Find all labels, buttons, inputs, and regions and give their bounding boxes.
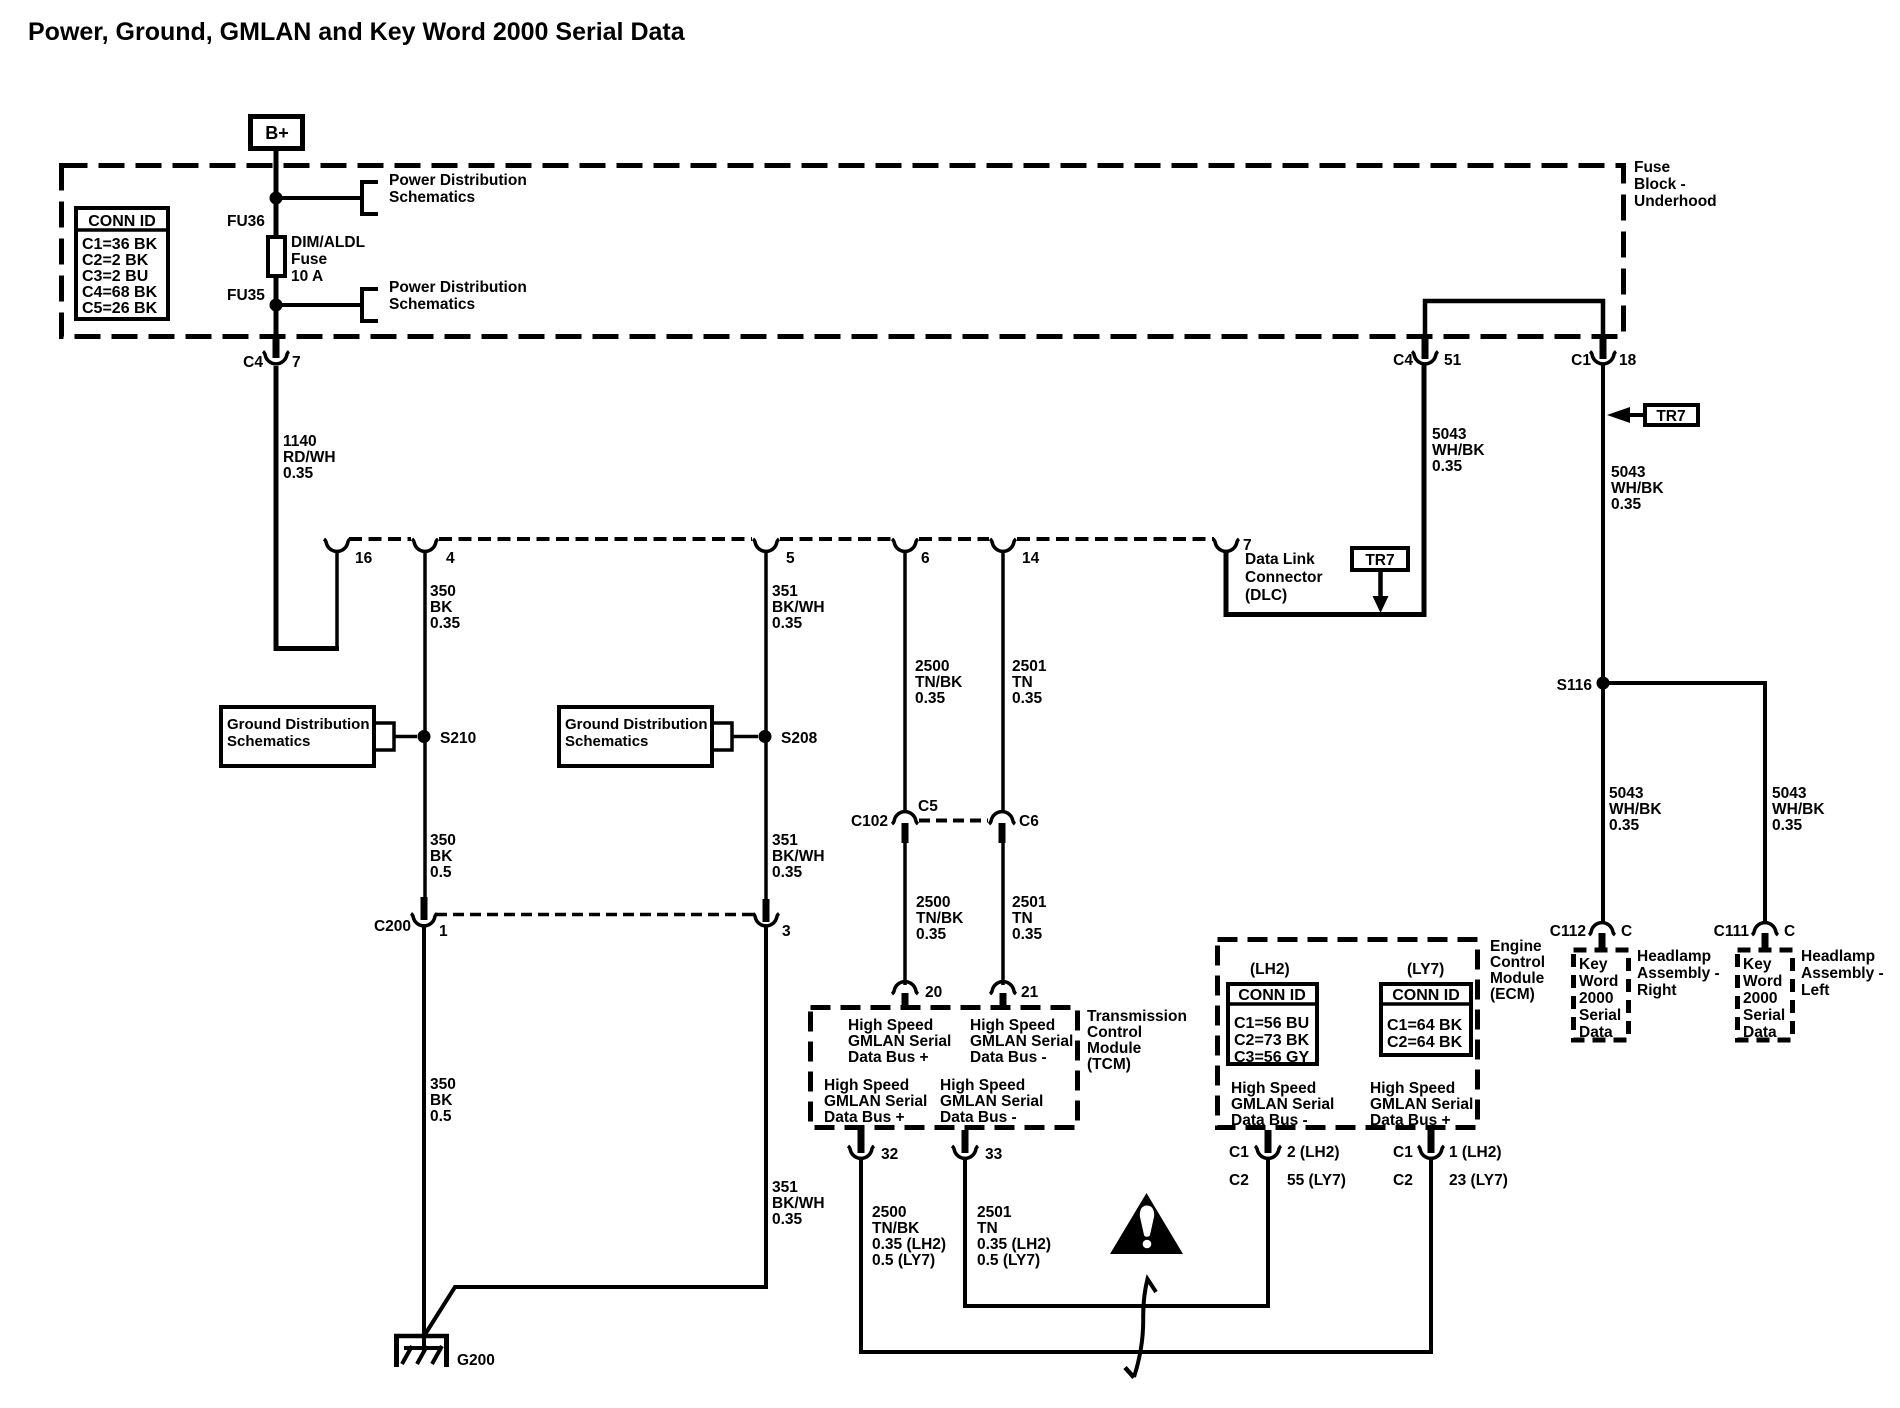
svg-text:Headlamp: Headlamp: [1801, 948, 1875, 965]
svg-text:GMLAN Serial: GMLAN Serial: [848, 1033, 951, 1050]
svg-text:WH/BK: WH/BK: [1772, 801, 1825, 818]
svg-text:1 (LH2): 1 (LH2): [1449, 1144, 1502, 1161]
svg-text:351: 351: [772, 583, 798, 600]
fuse DIM/ALDL 10 A: [268, 234, 365, 285]
svg-text:5043: 5043: [1611, 464, 1646, 481]
svg-text:5: 5: [786, 550, 795, 567]
svg-text:GMLAN Serial: GMLAN Serial: [970, 1033, 1073, 1050]
svg-text:18: 18: [1619, 352, 1637, 369]
svg-text:TR7: TR7: [1365, 552, 1394, 569]
svg-text:0.35: 0.35: [1611, 496, 1642, 513]
connector DLC pin 5: [753, 539, 795, 567]
svg-text:Data: Data: [1579, 1024, 1613, 1041]
svg-text:0.5: 0.5: [430, 864, 452, 881]
wire 2501 TN 0.35 C6 to TCM pin 21: [1003, 843, 1047, 985]
ground distribution schematics tap S208: [559, 707, 758, 766]
svg-text:0.35: 0.35: [1772, 817, 1803, 834]
svg-text:C112: C112: [1550, 923, 1586, 940]
svg-text:Data Link: Data Link: [1245, 551, 1315, 568]
svg-text:Module: Module: [1490, 970, 1545, 987]
connector ECM pin 2 (LH2) / 55 (LY7): [1229, 1130, 1346, 1189]
connector DLC pin 7: [1213, 537, 1252, 554]
svg-text:High Speed: High Speed: [824, 1077, 909, 1094]
TCM module box: [811, 1008, 1078, 1128]
svg-text:33: 33: [985, 1146, 1003, 1163]
svg-text:S208: S208: [781, 730, 818, 747]
svg-text:BK/WH: BK/WH: [772, 848, 825, 865]
svg-text:Data Bus -: Data Bus -: [970, 1049, 1047, 1066]
wire tap to power distribution 2: [276, 303, 362, 307]
svg-text:TN/BK: TN/BK: [915, 674, 963, 691]
svg-text:Serial: Serial: [1743, 1007, 1785, 1024]
CONN ID table LY7: [1381, 984, 1471, 1055]
svg-text:Schematics: Schematics: [565, 733, 648, 750]
connector DLC pin 16: [324, 539, 373, 567]
wire 2500 TN/BK 0.35 pin 6 to C102: [905, 552, 963, 812]
svg-text:C4: C4: [1393, 352, 1413, 369]
svg-text:2 (LH2): 2 (LH2): [1287, 1144, 1340, 1161]
svg-text:G200: G200: [457, 1352, 495, 1369]
svg-text:BK/WH: BK/WH: [772, 599, 825, 616]
junction node FU35: [270, 299, 283, 312]
CONN ID table (fuse block): [76, 208, 168, 319]
svg-text:10 A: 10 A: [291, 268, 323, 285]
svg-text:4: 4: [446, 550, 455, 567]
svg-text:GMLAN Serial: GMLAN Serial: [1370, 1096, 1473, 1113]
connector ECM pin 1 (LH2) / 23 (LY7): [1393, 1130, 1508, 1189]
svg-text:350: 350: [430, 1076, 456, 1093]
svg-text:C2: C2: [1229, 1172, 1249, 1189]
connector C1 pin 18: [1571, 337, 1636, 369]
svg-text:GMLAN Serial: GMLAN Serial: [1231, 1096, 1334, 1113]
TR7 tag with arrow (to DLC wire): [1352, 548, 1408, 613]
svg-text:Assembly -: Assembly -: [1801, 965, 1884, 982]
svg-text:14: 14: [1022, 550, 1040, 567]
wire fuse FU35 to connector C4: [274, 277, 279, 338]
svg-text:GMLAN Serial: GMLAN Serial: [824, 1093, 927, 1110]
svg-text:Module: Module: [1087, 1040, 1142, 1057]
wire S116 branch to C111: [1603, 683, 1765, 924]
svg-text:Right: Right: [1637, 982, 1677, 999]
svg-text:350: 350: [430, 583, 456, 600]
svg-text:0.35: 0.35: [1432, 458, 1463, 475]
svg-text:C1: C1: [1229, 1144, 1249, 1161]
svg-text:CONN ID: CONN ID: [1392, 987, 1460, 1004]
svg-text:Ground Distribution: Ground Distribution: [565, 716, 707, 733]
battery feed node B+: [251, 117, 303, 149]
svg-text:High Speed: High Speed: [970, 1017, 1055, 1034]
svg-text:2501: 2501: [1012, 658, 1047, 675]
svg-text:2501: 2501: [977, 1204, 1012, 1221]
svg-text:Word: Word: [1579, 973, 1618, 990]
svg-text:C3=56 GY: C3=56 GY: [1234, 1049, 1309, 1066]
svg-text:2500: 2500: [872, 1204, 906, 1221]
fuse block underhood enclosure: [62, 166, 1624, 337]
svg-text:0.35: 0.35: [1609, 817, 1640, 834]
connector C4 pin 51: [1393, 337, 1461, 369]
svg-text:(DLC): (DLC): [1245, 587, 1287, 604]
svg-text:2000: 2000: [1743, 990, 1777, 1007]
svg-text:CONN ID: CONN ID: [88, 213, 156, 230]
svg-text:C4=68 BK: C4=68 BK: [82, 284, 158, 301]
key word 2000 serial data box (headlamp right): [1574, 950, 1629, 1041]
label 5043 WH/BK 0.35 (right branch): [1772, 785, 1825, 834]
splice S208: [759, 730, 818, 747]
wire B+ to fuse FU36: [274, 150, 279, 237]
svg-text:TN: TN: [1012, 674, 1033, 691]
svg-text:5043: 5043: [1432, 426, 1467, 443]
svg-text:TN/BK: TN/BK: [916, 910, 964, 927]
svg-text:Serial: Serial: [1579, 1007, 1621, 1024]
label Engine Control Module (ECM): [1490, 938, 1545, 1003]
wire tap to power distribution 1: [276, 196, 362, 200]
svg-text:Schematics: Schematics: [227, 733, 310, 750]
TR7 tag with arrow (to C1-18 wire): [1607, 405, 1698, 425]
svg-text:(ECM): (ECM): [1490, 986, 1535, 1003]
svg-text:C3=2 BU: C3=2 BU: [82, 268, 148, 285]
svg-text:C200: C200: [374, 918, 411, 935]
svg-text:0.35: 0.35: [772, 864, 803, 881]
ground G200: [394, 1334, 495, 1369]
svg-text:Ground Distribution: Ground Distribution: [227, 716, 369, 733]
svg-text:GMLAN Serial: GMLAN Serial: [940, 1093, 1043, 1110]
svg-text:51: 51: [1444, 352, 1462, 369]
svg-text:(LY7): (LY7): [1407, 961, 1444, 978]
ground distribution schematics tap S210: [221, 707, 417, 766]
svg-text:351: 351: [772, 832, 798, 849]
svg-text:0.35: 0.35: [1012, 926, 1043, 943]
connector DLC pin 6: [892, 539, 930, 567]
svg-text:WH/BK: WH/BK: [1609, 801, 1662, 818]
svg-text:Data Bus -: Data Bus -: [940, 1109, 1017, 1126]
svg-text:Schematics: Schematics: [389, 296, 475, 313]
svg-text:0.35: 0.35: [772, 1211, 803, 1228]
power distribution schematics tap 2: [362, 279, 527, 321]
svg-text:0.35 (LH2): 0.35 (LH2): [977, 1236, 1051, 1253]
svg-text:TN: TN: [1012, 910, 1033, 927]
svg-text:0.35: 0.35: [1012, 690, 1043, 707]
svg-text:C1: C1: [1571, 352, 1591, 369]
TCM pin 33 function label: [940, 1077, 1043, 1126]
svg-text:Data Bus +: Data Bus +: [824, 1109, 905, 1126]
wire 1140 RD/WH 0.35: [276, 366, 339, 649]
svg-text:High Speed: High Speed: [848, 1017, 933, 1034]
svg-text:TN/BK: TN/BK: [872, 1220, 920, 1237]
svg-text:C4: C4: [243, 354, 263, 371]
svg-text:High Speed: High Speed: [1370, 1080, 1455, 1097]
svg-text:0.35: 0.35: [283, 465, 314, 482]
svg-text:5043: 5043: [1772, 785, 1807, 802]
svg-text:2500: 2500: [916, 894, 950, 911]
junction node FU36: [270, 192, 283, 205]
connector TCM pin 33: [952, 1130, 1003, 1163]
connector DLC pin 4: [412, 539, 455, 567]
svg-text:Power, Ground, GMLAN and Key W: Power, Ground, GMLAN and Key Word 2000 S…: [28, 18, 686, 46]
svg-text:Data Bus +: Data Bus +: [1370, 1112, 1451, 1129]
svg-text:C5: C5: [918, 798, 938, 815]
connector TCM pin 21: [990, 982, 1039, 1006]
data link connector bus: [349, 537, 1214, 541]
CONN ID table LH2: [1228, 984, 1317, 1066]
wire 2500 TN/BK 0.35 C102 to TCM pin 20: [905, 843, 964, 985]
connector C111 pin C: [1714, 923, 1796, 949]
ECM module box: [1218, 940, 1478, 1128]
splice S116: [1557, 677, 1610, 695]
svg-text:C: C: [1784, 923, 1795, 940]
connector DLC pin 14: [990, 539, 1040, 567]
svg-text:351: 351: [772, 1179, 798, 1196]
svg-text:Left: Left: [1801, 982, 1829, 999]
svg-text:3: 3: [782, 923, 791, 940]
svg-text:DIM/ALDL: DIM/ALDL: [291, 234, 365, 251]
wire 2500 TN/BK TCM 32 to ECM: [861, 1158, 1431, 1352]
note arrow: [1125, 1279, 1156, 1378]
svg-text:C: C: [1621, 923, 1632, 940]
wire 2501 TN TCM 33 to ECM: [965, 1158, 1268, 1306]
svg-text:Word: Word: [1743, 973, 1782, 990]
TCM pin 20 function label: [848, 1017, 951, 1066]
connector C4 pin 7: [243, 337, 300, 371]
label Headlamp Assembly - Right: [1637, 948, 1720, 999]
svg-text:0.35: 0.35: [430, 615, 461, 632]
svg-text:20: 20: [925, 984, 942, 1001]
svg-text:TR7: TR7: [1656, 408, 1685, 425]
svg-text:Key: Key: [1579, 956, 1608, 973]
svg-text:BK: BK: [430, 848, 453, 865]
svg-text:CONN ID: CONN ID: [1238, 987, 1306, 1004]
svg-text:7: 7: [1243, 537, 1252, 554]
svg-text:6: 6: [921, 550, 930, 567]
svg-text:1: 1: [439, 923, 448, 940]
svg-text:C102: C102: [851, 813, 888, 830]
svg-text:Fuse: Fuse: [1634, 159, 1671, 176]
svg-text:(LH2): (LH2): [1250, 961, 1290, 978]
svg-text:0.35 (LH2): 0.35 (LH2): [872, 1236, 946, 1253]
connector C102 pin C5: [851, 798, 938, 843]
svg-text:C1=36 BK: C1=36 BK: [82, 236, 158, 253]
svg-text:Key: Key: [1743, 956, 1772, 973]
splice S210: [418, 730, 477, 747]
svg-text:2000: 2000: [1579, 990, 1613, 1007]
label 351 BK/WH 0.35 (2): [772, 832, 825, 881]
svg-text:Power Distribution: Power Distribution: [389, 172, 527, 189]
svg-text:Schematics: Schematics: [389, 189, 475, 206]
svg-text:WH/BK: WH/BK: [1432, 442, 1485, 459]
svg-text:FU35: FU35: [227, 287, 265, 304]
wire 5043 WH/BK 0.35 C4-51 to DLC pin 7: [1226, 363, 1485, 615]
svg-text:Power Distribution: Power Distribution: [389, 279, 527, 296]
power distribution schematics tap 1: [362, 172, 527, 214]
wire 350 BK 0.35 pin 4 to S210: [425, 552, 461, 897]
svg-text:Control: Control: [1490, 954, 1545, 971]
connector TCM pin 20: [892, 982, 942, 1006]
svg-text:BK/WH: BK/WH: [772, 1195, 825, 1212]
svg-text:16: 16: [355, 550, 373, 567]
connector C6: [989, 812, 1039, 843]
svg-text:Underhood: Underhood: [1634, 193, 1717, 210]
svg-text:5043: 5043: [1609, 785, 1644, 802]
svg-text:21: 21: [1021, 984, 1039, 1001]
svg-text:1140: 1140: [283, 433, 317, 450]
svg-text:Control: Control: [1087, 1024, 1142, 1041]
svg-text:C2=2 BK: C2=2 BK: [82, 252, 149, 269]
svg-text:0.35: 0.35: [916, 926, 947, 943]
warning triangle note: [1110, 1193, 1183, 1254]
label Transmission Control Module (TCM): [1087, 1008, 1187, 1073]
svg-text:High Speed: High Speed: [1231, 1080, 1316, 1097]
TCM pin 32 function label: [824, 1077, 927, 1126]
svg-text:C2=73 BK: C2=73 BK: [1234, 1032, 1310, 1049]
svg-text:32: 32: [881, 1146, 898, 1163]
connector C112 pin C: [1550, 923, 1632, 949]
fuse block output wire rectangle: [1425, 301, 1603, 338]
TCM pin 21 function label: [970, 1017, 1073, 1066]
connector C200 pin 3: [753, 899, 791, 940]
connector C102 bus: [919, 819, 988, 823]
key word 2000 serial data box (headlamp left): [1738, 950, 1793, 1041]
svg-text:Block -: Block -: [1634, 176, 1686, 193]
ECM pin 2 function label: [1231, 1080, 1334, 1129]
svg-text:C1: C1: [1393, 1144, 1413, 1161]
svg-text:Data: Data: [1743, 1024, 1777, 1041]
connector C200 bus: [436, 913, 754, 917]
svg-text:C111: C111: [1714, 923, 1750, 940]
svg-text:7: 7: [292, 354, 301, 371]
svg-text:BK: BK: [430, 599, 453, 616]
svg-text:(TCM): (TCM): [1087, 1056, 1131, 1073]
svg-text:Data Bus +: Data Bus +: [848, 1049, 929, 1066]
svg-text:Engine: Engine: [1490, 938, 1542, 955]
ECM pin 1 function label: [1370, 1080, 1473, 1129]
svg-text:TN: TN: [977, 1220, 998, 1237]
svg-text:0.35: 0.35: [915, 690, 946, 707]
svg-text:0.5: 0.5: [430, 1108, 452, 1125]
svg-text:C2: C2: [1393, 1172, 1413, 1189]
svg-text:B+: B+: [265, 123, 289, 143]
svg-text:C2=64 BK: C2=64 BK: [1387, 1034, 1463, 1051]
svg-text:WH/BK: WH/BK: [1611, 480, 1664, 497]
svg-text:C1=56 BU: C1=56 BU: [1234, 1015, 1309, 1032]
svg-text:Transmission: Transmission: [1087, 1008, 1187, 1025]
svg-text:Data Bus -: Data Bus -: [1231, 1112, 1308, 1129]
label 350 BK 0.5: [430, 832, 456, 881]
svg-text:S116: S116: [1557, 677, 1593, 694]
svg-text:High Speed: High Speed: [940, 1077, 1025, 1094]
svg-text:C1=64 BK: C1=64 BK: [1387, 1017, 1463, 1034]
svg-text:Assembly -: Assembly -: [1637, 965, 1720, 982]
wire 351 BK/WH 0.35 pin 5 to S208: [766, 552, 825, 900]
svg-text:23 (LY7): 23 (LY7): [1449, 1172, 1508, 1189]
wire 2501 TN 0.35 pin 14 to C6: [1003, 552, 1047, 812]
svg-text:C6: C6: [1019, 813, 1039, 830]
wire 351 BK/WH 0.35 to ground G200: [424, 927, 825, 1336]
svg-text:RD/WH: RD/WH: [283, 449, 336, 466]
label Headlamp Assembly - Left: [1801, 948, 1884, 999]
svg-text:FU36: FU36: [227, 213, 265, 230]
svg-text:Fuse: Fuse: [291, 251, 328, 268]
svg-text:Connector: Connector: [1245, 569, 1323, 586]
wire 350 BK 0.5 to ground G200: [424, 927, 456, 1338]
connector C200 pin 1: [374, 897, 448, 940]
label Fuse Block - Underhood: [1634, 159, 1717, 210]
label Data Link Connector (DLC): [1245, 551, 1323, 604]
svg-text:S210: S210: [440, 730, 476, 747]
svg-text:C5=26 BK: C5=26 BK: [82, 300, 158, 317]
wire 5043 WH/BK 0.35 C1-18 to S116: [1603, 363, 1664, 924]
svg-text:55 (LY7): 55 (LY7): [1287, 1172, 1346, 1189]
svg-text:Headlamp: Headlamp: [1637, 948, 1711, 965]
svg-text:2500: 2500: [915, 658, 949, 675]
svg-text:BK: BK: [430, 1092, 453, 1109]
connector TCM pin 32: [848, 1130, 898, 1163]
svg-text:0.5 (LY7): 0.5 (LY7): [872, 1252, 935, 1269]
svg-text:350: 350: [430, 832, 456, 849]
svg-text:0.35: 0.35: [772, 615, 803, 632]
label 5043 WH/BK 0.35 (left branch): [1609, 785, 1662, 834]
svg-text:2501: 2501: [1012, 894, 1047, 911]
svg-text:0.5 (LY7): 0.5 (LY7): [977, 1252, 1040, 1269]
